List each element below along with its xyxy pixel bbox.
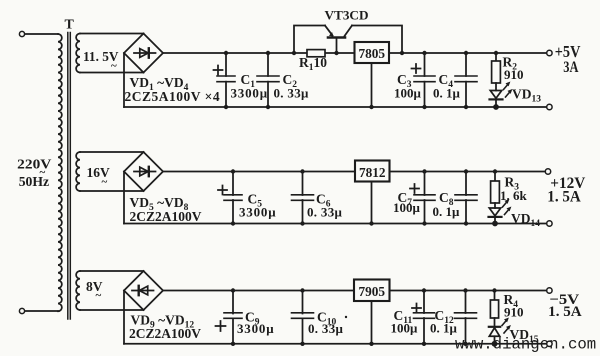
- bridge rectifier VD1-VD4: [124, 34, 163, 73]
- bridge rectifier VD5-VD8: [124, 152, 163, 191]
- capacitor C6: [292, 169, 314, 225]
- transformer T: [17, 18, 74, 320]
- terminal: AC input bottom: [19, 308, 24, 313]
- capacitor C4: [455, 51, 477, 109]
- svg-text:0. 33μ: 0. 33μ: [308, 321, 343, 336]
- resistor R1: [307, 50, 325, 57]
- transistor VT3CD: [325, 26, 352, 38]
- polarity + of C5: [218, 186, 227, 195]
- terminal row1 return: [547, 104, 552, 109]
- node: R1 left: [292, 51, 296, 55]
- terminal row3 return: [547, 341, 552, 346]
- svg-text:2CZ2A100V: 2CZ2A100V: [130, 209, 202, 224]
- primary winding of T: [58, 34, 62, 311]
- terminal -5V: [547, 288, 552, 293]
- wire: 7812 ground pin: [371, 182, 373, 224]
- bridge rectifier VD9-VD12: [124, 271, 163, 310]
- capacitor C11: [412, 288, 435, 346]
- wire: 7905 ground pin: [371, 301, 373, 344]
- svg-text:0. 1μ: 0. 1μ: [430, 321, 458, 336]
- node: 7805 gnd at bottom rail: [369, 105, 373, 109]
- LED VD15: [489, 318, 511, 347]
- resistor R2: [492, 51, 501, 91]
- svg-text:3300μ: 3300μ: [239, 205, 276, 220]
- terminal +5V: [547, 50, 552, 55]
- svg-text:3300μ: 3300μ: [231, 86, 268, 101]
- LED VD14: [489, 199, 512, 226]
- wire: row3 bottom rail: [124, 343, 547, 345]
- svg-text:7905: 7905: [358, 285, 385, 300]
- svg-text:100μ: 100μ: [393, 200, 421, 215]
- wire: row1 top rail: [163, 52, 547, 54]
- wire: secondary3 top lead: [80, 270, 144, 272]
- wire: row2 bottom rail: [124, 223, 547, 225]
- wire: base lead: [336, 38, 338, 54]
- svg-text:1. 6k: 1. 6k: [500, 188, 528, 203]
- polarity + of C7: [410, 184, 419, 193]
- wire: row2 top rail: [163, 171, 547, 173]
- regulator U3 7905: [354, 280, 390, 302]
- wire: bottom terminal to primary: [25, 310, 58, 312]
- svg-text:2CZ5A100V ×4: 2CZ5A100V ×4: [125, 89, 221, 104]
- svg-text:2CZ2A100V: 2CZ2A100V: [129, 326, 201, 341]
- secondary winding 11.5V of T: [76, 34, 143, 73]
- resistor R3: [491, 169, 500, 208]
- node: collector at output rail: [400, 51, 404, 55]
- node: 7905 gnd at bottom rail: [369, 342, 373, 346]
- svg-text:1. 5A: 1. 5A: [547, 189, 581, 206]
- resistor R4: [490, 288, 498, 327]
- wire: 7805 ground pin: [371, 63, 373, 107]
- svg-text:50Hz: 50Hz: [19, 175, 49, 190]
- LED VD13: [490, 82, 513, 110]
- wire: secondary1 top lead: [80, 33, 144, 35]
- terminal +12V: [545, 169, 550, 174]
- node: base at rail: [334, 51, 338, 55]
- regulator U1 7805: [355, 42, 390, 63]
- capacitor C2: [257, 51, 279, 109]
- svg-text:3A: 3A: [563, 59, 579, 76]
- terminal row2 return: [547, 221, 552, 226]
- wire: bridge1 negative to row1 bottom rail: [123, 53, 125, 107]
- svg-text:220V: 220V: [17, 158, 51, 173]
- capacitor C5: [218, 169, 242, 225]
- polarity + of C9: [216, 321, 226, 331]
- capacitor C10: [292, 288, 314, 346]
- svg-text:~: ~: [102, 176, 108, 188]
- svg-text:7805: 7805: [358, 47, 385, 62]
- polarity + of C3: [412, 64, 421, 73]
- capacitor C8: [455, 169, 477, 225]
- svg-text:0. 1μ: 0. 1μ: [433, 204, 461, 219]
- svg-text:910: 910: [504, 305, 524, 320]
- secondary winding 8V of T: [76, 271, 143, 310]
- capacitor C3: [412, 51, 436, 109]
- wire: secondary1 bottom lead: [80, 72, 144, 74]
- svg-text:0. 33μ: 0. 33μ: [274, 86, 309, 101]
- terminal: AC input top: [19, 31, 24, 36]
- wire: secondary2 top lead: [80, 151, 144, 153]
- svg-text:0. 1μ: 0. 1μ: [433, 86, 461, 101]
- capacitor C9: [216, 288, 243, 346]
- svg-text:T: T: [65, 18, 75, 33]
- wire: top terminal to primary: [25, 33, 58, 35]
- svg-text:7812: 7812: [359, 166, 386, 181]
- svg-text:~: ~: [96, 290, 102, 302]
- svg-text:3300μ: 3300μ: [237, 321, 274, 336]
- node: 7812 gnd at bottom rail: [369, 221, 373, 225]
- svg-text:100μ: 100μ: [391, 321, 419, 336]
- polarity + of C1: [214, 66, 223, 75]
- capacitor C12: [455, 288, 477, 346]
- secondary winding 16V of T: [76, 152, 143, 191]
- svg-text:100μ: 100μ: [394, 86, 422, 101]
- regulator U2 7812: [355, 161, 390, 182]
- wire: collector to 7805 output: [352, 26, 402, 54]
- core of transformer T: [68, 33, 71, 320]
- capacitor C7: [410, 169, 435, 225]
- svg-text:~: ~: [111, 60, 117, 72]
- wire: bridge3 positive to row3 bottom rail: [123, 291, 125, 344]
- svg-text:VT3CD: VT3CD: [325, 8, 369, 23]
- wire: row3 top rail: [163, 290, 547, 292]
- wire: row1 bottom rail: [124, 106, 547, 108]
- wire: emitter riser: [294, 26, 325, 54]
- svg-text:0. 33μ: 0. 33μ: [307, 205, 342, 220]
- wire: secondary2 bottom lead: [80, 190, 144, 192]
- wire: secondary3 bottom lead: [80, 309, 144, 311]
- svg-text:1. 5A: 1. 5A: [548, 304, 582, 320]
- wire: bridge2 negative to row2 bottom rail: [123, 172, 125, 224]
- polarity + of C11: [412, 304, 421, 313]
- svg-text:910: 910: [504, 67, 524, 82]
- capacitor C1: [214, 51, 236, 109]
